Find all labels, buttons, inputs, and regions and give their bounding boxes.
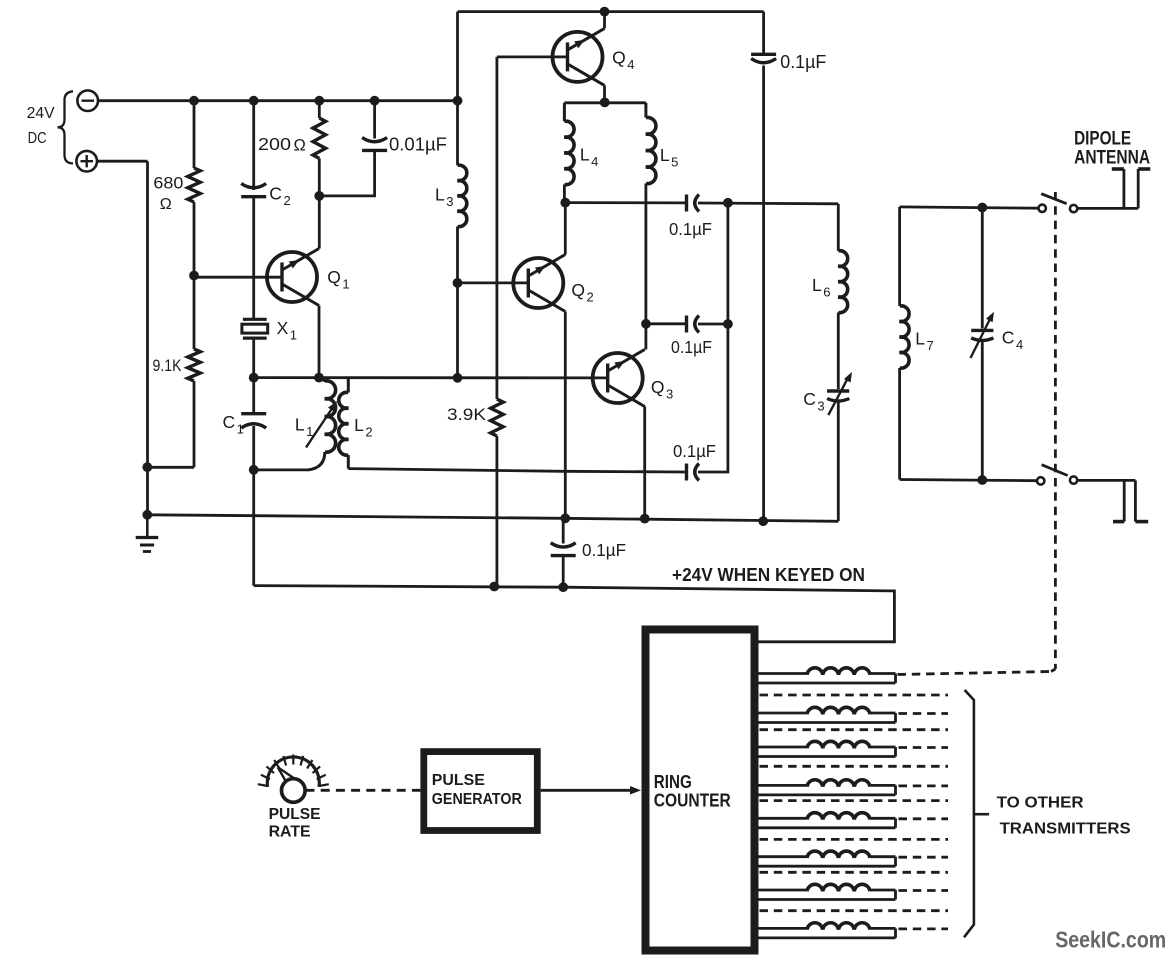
svg-text:RING: RING [654, 772, 692, 792]
svg-text:DIPOLE: DIPOLE [1074, 129, 1131, 150]
svg-text:GENERATOR: GENERATOR [432, 791, 522, 808]
svg-text:+24V WHEN KEYED ON: +24V WHEN KEYED ON [672, 565, 865, 585]
svg-text:0.1µF: 0.1µF [671, 337, 712, 357]
svg-text:Ω: Ω [160, 196, 172, 213]
svg-text:PULSE: PULSE [432, 772, 485, 789]
svg-text:0.1µF: 0.1µF [669, 219, 712, 239]
svg-text:9.1K: 9.1K [153, 357, 182, 375]
svg-text:0.1µF: 0.1µF [582, 540, 626, 560]
svg-text:PULSE: PULSE [269, 806, 321, 823]
svg-text:0.01µF: 0.01µF [389, 135, 447, 155]
svg-text:COUNTER: COUNTER [654, 791, 731, 811]
svg-text:0.1µF: 0.1µF [673, 441, 716, 461]
svg-text:RATE: RATE [269, 824, 311, 841]
svg-text:24V: 24V [27, 105, 56, 122]
svg-text:TRANSMITTERS: TRANSMITTERS [1000, 821, 1131, 838]
svg-text:Ω: Ω [294, 137, 306, 155]
svg-text:TO OTHER: TO OTHER [997, 795, 1084, 812]
svg-text:200: 200 [258, 134, 291, 154]
svg-text:680: 680 [153, 173, 183, 192]
svg-text:SeekIC.com: SeekIC.com [1055, 927, 1166, 953]
svg-text:3.9K: 3.9K [447, 406, 486, 424]
svg-text:0.1µF: 0.1µF [780, 52, 826, 72]
svg-text:DC: DC [28, 130, 47, 147]
svg-text:ANTENNA: ANTENNA [1074, 148, 1150, 169]
